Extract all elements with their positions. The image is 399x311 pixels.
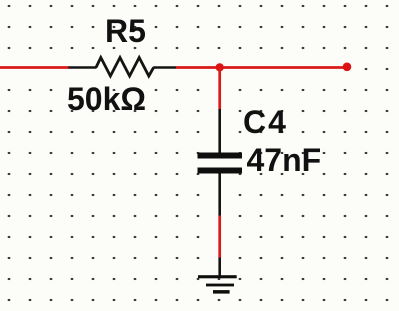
- svg-text:50kΩ: 50kΩ: [67, 81, 146, 117]
- svg-text:C4: C4: [243, 104, 288, 140]
- svg-text:47nF: 47nF: [247, 142, 322, 178]
- svg-text:R5: R5: [105, 13, 146, 49]
